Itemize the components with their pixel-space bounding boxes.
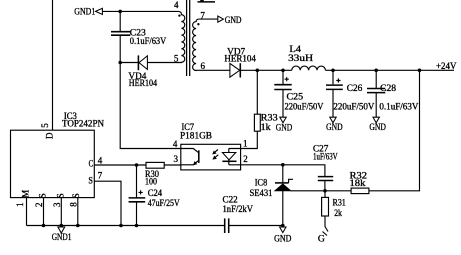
svg-text:S: S [38, 193, 48, 198]
svg-text:S: S [55, 193, 65, 198]
net flag GND1 (top left) [74, 6, 102, 16]
svg-text:GND: GND [274, 234, 292, 244]
inductor L4 33uH [288, 44, 325, 70]
svg-text:6: 6 [201, 61, 206, 71]
transformer T secondary winding (pins 7-6) [193, 19, 200, 71]
capacitor C25 220uF/50V [274, 77, 324, 112]
svg-text:R31: R31 [333, 197, 346, 207]
wire C26 bottom lead [332, 89, 334, 117]
wire VD4 node to diode [120, 62, 138, 64]
wire IC3 C pin to R30 [94, 164, 146, 166]
svg-text:HER104: HER104 [129, 78, 158, 88]
svg-text:2: 2 [34, 203, 44, 208]
svg-text:1: 1 [243, 139, 248, 149]
svg-text:4: 4 [173, 139, 178, 149]
capacitor C28 0.1uF/63V [367, 83, 419, 111]
secondary phase dot [197, 23, 199, 25]
svg-text:D: D [44, 132, 54, 139]
svg-text:5: 5 [40, 123, 50, 128]
junction dot R33 branch [255, 69, 259, 73]
resistor R33 1k [254, 112, 278, 132]
svg-text:3: 3 [174, 154, 179, 164]
wire IC3 S pin branch [94, 181, 121, 225]
junction dot feedback branch [418, 69, 422, 73]
capacitor C22 1nF/2kV [223, 194, 254, 233]
svg-text:1k: 1k [261, 122, 271, 132]
svg-text:2k: 2k [334, 208, 342, 218]
junction dot C25 branch [281, 69, 285, 73]
svg-text:100: 100 [145, 177, 157, 187]
svg-text:1: 1 [15, 202, 25, 207]
junction dot pin3/bottom [60, 224, 64, 228]
wire IC8 cathode lead [282, 165, 284, 183]
wire C26 top lead [332, 70, 334, 84]
net label G (cut ground under R31) [318, 232, 327, 244]
junction dot at VD4 anode node [118, 61, 122, 65]
ground symbol GND1 (bottom) [52, 227, 72, 242]
wire IC7 pin4 feed (from VD4 node down and right) [120, 63, 181, 149]
capacitor C27 1uF/63V [313, 144, 338, 181]
svg-text:SE431: SE431 [250, 188, 273, 198]
svg-text:33uH: 33uH [288, 53, 314, 63]
svg-text:220uF/50V: 220uF/50V [333, 101, 374, 111]
wire IC8 anode to GND [282, 191, 284, 226]
svg-text:HER104: HER104 [224, 53, 256, 63]
svg-text:C25: C25 [287, 91, 304, 101]
svg-text:GND: GND [225, 15, 242, 25]
svg-text:0.1uF/63V: 0.1uF/63V [379, 101, 418, 111]
svg-text:C24: C24 [148, 188, 163, 198]
bottom ground wire [27, 225, 283, 227]
junction dot C24/bottom [135, 224, 139, 228]
svg-text:TOP242PN: TOP242PN [62, 119, 104, 129]
svg-text:5: 5 [174, 54, 179, 64]
svg-text:GND: GND [276, 122, 293, 132]
wire C28 bottom lead [375, 93, 377, 118]
wire C27 bottom lead [324, 181, 326, 191]
wire R32 left to feedback node [291, 190, 351, 192]
wire R33 top lead [256, 70, 258, 114]
IC3 pin D wire (pin 5) [52, 0, 54, 130]
svg-text:S: S [71, 193, 81, 198]
junction dot IC8 cathode node [281, 163, 285, 167]
optocoupler IC7 P181GB [180, 122, 241, 170]
svg-text:7: 7 [98, 171, 103, 181]
ground symbol under C26 [326, 117, 343, 132]
junction dot S branch/bottom [119, 224, 123, 228]
wire C25 bottom lead [282, 90, 284, 118]
svg-text:C: C [89, 158, 94, 168]
svg-text:2: 2 [243, 154, 248, 164]
svg-text:R33: R33 [261, 112, 279, 122]
capacitor C26 220uF/50V [326, 78, 375, 111]
svg-text:GND: GND [369, 122, 386, 132]
ground symbol under IC8 [274, 227, 292, 244]
diode VD4 HER104 [128, 55, 157, 87]
svg-text:1uF/63V: 1uF/63V [313, 152, 338, 162]
IC3 pin 3 wire [60, 198, 62, 226]
junction dot IC8 anode / bottom wire [281, 224, 285, 228]
svg-text:18k: 18k [350, 178, 366, 188]
svg-text:GND1: GND1 [74, 6, 95, 16]
transformer core [187, 0, 190, 76]
ground symbol under C28 [369, 117, 386, 132]
svg-text:M: M [21, 190, 31, 198]
wire rail after L4 to +24V [325, 69, 454, 71]
partial top-edge wire (cut winding lead) [198, 1, 216, 3]
svg-text:C22: C22 [223, 194, 238, 204]
junction dot feedback node (R31/C27) [323, 189, 327, 193]
wire R30 to IC7 pin 3 [164, 164, 181, 166]
wire C23 branch vertical [119, 11, 121, 62]
wire pin 6 to VD7 [199, 69, 230, 71]
wire C24 top lead [136, 165, 138, 197]
wire IC7 pin 2 to C27 [241, 165, 325, 176]
shunt regulator IC8 SE431 [250, 178, 294, 199]
svg-text:0.1uF/63V: 0.1uF/63V [130, 36, 167, 46]
wire C24 bottom lead [136, 202, 138, 226]
svg-text:47uF/25V: 47uF/25V [148, 198, 180, 208]
resistor R31 2k [322, 191, 346, 218]
wire C28 top lead [375, 70, 377, 88]
svg-text:4: 4 [174, 0, 179, 10]
svg-text:C28: C28 [380, 83, 397, 93]
junction dot C28 branch [374, 69, 378, 73]
svg-text:3: 3 [52, 202, 62, 207]
svg-text:GND: GND [326, 122, 343, 132]
svg-text:C26: C26 [347, 83, 363, 93]
svg-text:1nF/2kV: 1nF/2kV [223, 204, 254, 214]
resistor R32 18k [350, 171, 369, 194]
junction dot pin2/bottom [42, 224, 46, 228]
transformer T primary winding (pins 4-5) [178, 11, 185, 62]
svg-text:S: S [88, 175, 93, 185]
IC3 pin 2 wire [43, 198, 45, 226]
resistor R30 100 [145, 162, 164, 186]
IC7 light arrows [213, 150, 219, 160]
capacitor C23 [111, 27, 167, 46]
primary phase dot [178, 14, 180, 16]
svg-text:IC8: IC8 [255, 178, 268, 188]
net flag GND (secondary return) [218, 15, 242, 25]
wire pin 7 to GND flag [199, 18, 218, 20]
svg-text:220uF/50V: 220uF/50V [285, 102, 324, 112]
svg-text:P181GB: P181GB [180, 130, 212, 140]
wire C25 top lead [282, 70, 284, 84]
wire GND1 to transformer pin 4 [102, 10, 178, 12]
controller IC3 TOP242PN [11, 111, 105, 197]
svg-text:GND1: GND1 [52, 232, 72, 242]
wire VD4 to transformer pin 5 [148, 62, 179, 64]
ground symbol under C25 [276, 117, 293, 132]
junction dot C24 branch [135, 163, 139, 167]
junction dot pin8/bottom [76, 224, 80, 228]
IC7 phototransistor [181, 149, 199, 165]
wire R31 bottom lead [325, 216, 328, 232]
svg-text:8: 8 [68, 202, 78, 207]
diode VD7 HER104 [224, 46, 256, 77]
svg-text:G: G [318, 233, 326, 243]
junction dot at C23 top [118, 10, 122, 14]
IC3 pin 8 wire [77, 198, 79, 226]
wire feedback branch down from rail [369, 70, 420, 191]
svg-text:+24V: +24V [436, 61, 457, 71]
junction dot C26 branch [331, 69, 335, 73]
capacitor C24 47uF/25V [129, 188, 181, 208]
wire R33 bottom to IC7 pin 1 [241, 131, 258, 148]
IC3 pin 1 wire [26, 198, 28, 226]
svg-text:4: 4 [98, 155, 103, 165]
IC7 LED [222, 149, 240, 165]
wire +24V rail [241, 69, 292, 71]
